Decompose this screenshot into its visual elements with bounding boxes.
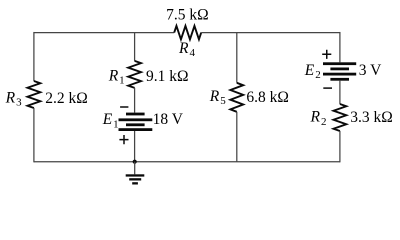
- minus sign of E2: [323, 87, 332, 89]
- svg-text:R2: R2: [310, 109, 327, 128]
- wire middle branch from E1 to bottom wire: [134, 131, 136, 162]
- svg-text:R5: R5: [209, 88, 226, 107]
- minus sign of E1: [120, 106, 128, 108]
- battery E2: [323, 62, 356, 80]
- svg-text:R4: R4: [178, 40, 195, 59]
- wire right branch from top wire to E2: [339, 32, 341, 62]
- wire left branch upper: [33, 32, 35, 81]
- wire middle branch from R1 to battery E1: [134, 88, 136, 113]
- svg-text:7.5 kΩ: 7.5 kΩ: [166, 6, 209, 23]
- plus sign of E1: [119, 135, 128, 144]
- svg-text:6.8 kΩ: 6.8 kΩ: [246, 89, 289, 106]
- resistor R5: [230, 83, 243, 112]
- svg-text:3.3 kΩ: 3.3 kΩ: [350, 109, 393, 126]
- plus sign of E2: [322, 50, 331, 59]
- svg-text:9.1 kΩ: 9.1 kΩ: [146, 68, 189, 85]
- svg-text:3 V: 3 V: [359, 62, 382, 79]
- ground: [126, 174, 145, 184]
- svg-text:18 V: 18 V: [153, 111, 184, 128]
- svg-text:R1: R1: [108, 67, 125, 86]
- wire top-left segment: [34, 32, 174, 34]
- wire bottom: [34, 161, 340, 163]
- wire left branch lower: [33, 108, 35, 162]
- svg-text:2.2 kΩ: 2.2 kΩ: [45, 90, 88, 107]
- resistor R4: [174, 26, 201, 40]
- svg-text:E2: E2: [304, 62, 321, 81]
- wire right branch from E2 to R2: [339, 81, 341, 104]
- wire R5 branch lower: [236, 112, 238, 162]
- wire top-right segment: [201, 32, 340, 34]
- resistor R2: [334, 104, 347, 131]
- svg-text:E1: E1: [102, 111, 119, 130]
- junction node at ground tap: [133, 160, 137, 164]
- svg-text:R3: R3: [5, 89, 22, 108]
- wire ground stem: [134, 162, 136, 175]
- resistor R1: [128, 61, 141, 88]
- wire R5 branch upper: [236, 33, 238, 83]
- wire right branch from R2 to bottom wire: [339, 131, 341, 162]
- resistor R3: [28, 81, 41, 108]
- wire middle branch from top wire to R1: [134, 33, 136, 61]
- battery E1: [119, 113, 153, 131]
